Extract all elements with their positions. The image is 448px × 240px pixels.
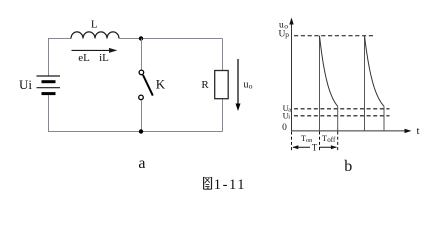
svg-text:L: L <box>91 19 98 31</box>
dashed marker at origin below axis <box>291 132 293 153</box>
period T arrow left part <box>293 146 310 148</box>
graph y-axis <box>291 21 293 131</box>
wire right vertical <box>222 39 224 132</box>
dashed marker at Ton end below axis <box>319 132 321 153</box>
svg-text:T: T <box>322 134 327 143</box>
resistor R <box>215 71 229 99</box>
svg-text:T: T <box>312 143 318 153</box>
graph x-axis <box>292 130 408 132</box>
svg-text:R: R <box>201 79 209 91</box>
wire left vertical upper <box>48 39 50 77</box>
dashed line Ua level <box>294 108 390 110</box>
svg-text:t: t <box>417 125 420 137</box>
svg-text:off: off <box>327 136 336 144</box>
svg-text:p: p <box>285 30 289 39</box>
dashed line Up level <box>292 35 374 37</box>
svg-text:1-11: 1-11 <box>214 177 246 193</box>
svg-text:Ui: Ui <box>19 77 32 92</box>
svg-text:u: u <box>244 80 249 91</box>
wire top-left horizontal (battery to inductor) <box>48 38 71 40</box>
svg-text:a: a <box>288 106 291 113</box>
inductor L <box>71 32 119 39</box>
svg-text:K: K <box>156 77 166 92</box>
caption glyph tu (figure) <box>204 177 212 190</box>
battery Ui <box>37 76 61 94</box>
svg-text:eL: eL <box>78 52 90 64</box>
dashed marker at T end below axis <box>337 132 339 153</box>
wire switch branch upper <box>141 39 143 71</box>
svg-text:o: o <box>249 81 253 90</box>
pulse 2 decay curve <box>365 36 385 107</box>
wire bottom horizontal <box>48 131 223 133</box>
svg-text:a: a <box>138 155 145 172</box>
pulse 2 rising edge <box>364 36 366 131</box>
wire switch branch lower <box>141 100 143 132</box>
period T arrow right part <box>319 146 337 148</box>
pulse 1 decay curve <box>320 36 338 107</box>
switch K <box>139 70 153 100</box>
dashed line Ui level <box>294 115 390 117</box>
svg-text:iL: iL <box>99 52 109 64</box>
svg-text:0: 0 <box>282 123 287 133</box>
node top junction dot <box>139 36 143 40</box>
pulse 2 falling edge <box>383 106 385 131</box>
wire top (node to right corner) <box>141 38 223 40</box>
wire left vertical lower <box>48 95 50 131</box>
arrow uo output voltage <box>237 59 239 106</box>
pulse 1 falling edge <box>337 106 339 131</box>
pulse 1 rising edge <box>319 36 321 131</box>
svg-text:i: i <box>288 114 290 121</box>
arrow eL iL current direction <box>72 49 113 51</box>
node bottom junction dot <box>139 129 143 133</box>
wire top (inductor to node) <box>119 38 141 40</box>
svg-text:b: b <box>344 158 352 175</box>
